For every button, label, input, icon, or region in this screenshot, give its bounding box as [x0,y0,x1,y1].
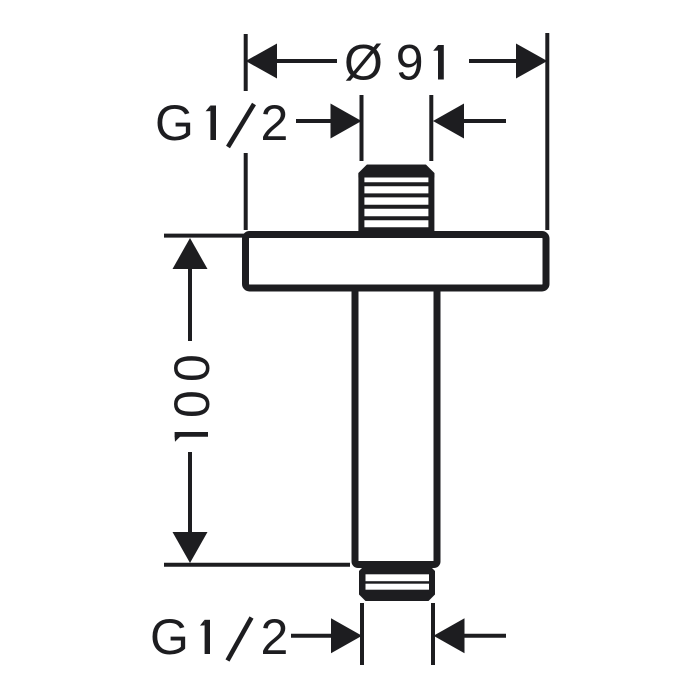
dia91 right arrowhead [516,44,547,79]
svg-text:9: 9 [396,35,424,91]
dia91 right extension line [545,33,549,230]
bottom G1/2 right-pointing arrowhead [331,618,362,653]
top thread line 1 [364,182,429,186]
top thread solid crest band [358,165,434,178]
top G1/2 dimension tail right [463,119,506,123]
dim100 dimension line lower segment [188,452,192,534]
bottom G1/2 dimension tail left [291,634,332,638]
dia91 left arrowhead [246,44,277,79]
dim100 top extension line [164,234,247,238]
top thread line 3 [364,205,429,209]
bottom G1/2 left-pointing arrowhead [434,618,465,653]
bottom G1/2 dimension tail right [464,634,506,638]
dim100 bottom extension line [164,563,350,567]
bottom thread white stripe 1 [366,574,430,581]
top G1/2 left-pointing arrowhead [433,104,464,139]
svg-text:2: 2 [261,609,289,665]
bottom G1/2 right extension line [431,603,435,665]
top G1/2 right extension line [429,95,433,161]
pipe body [355,270,437,565]
dia91 left extension line upper [244,34,248,91]
svg-text:G: G [155,95,194,151]
top thread line 4 [364,216,429,220]
dia91 left extension line lower [244,153,248,230]
top G1/2 right-pointing arrowhead [331,104,362,139]
dim100 down arrowhead [173,532,208,563]
dia91 dimension line left segment [275,59,337,63]
top thread line 5 [364,227,429,231]
top thread line 2 [364,193,429,197]
svg-text:Ø: Ø [344,35,383,91]
ceiling flange [246,235,547,289]
dia91 dimension line right segment [469,59,518,63]
dim100 dimension line upper segment [188,268,192,341]
bottom thread white stripe 2 [366,584,430,590]
top G1/2 dimension tail left [296,119,332,123]
bottom G1/2 left extension line [360,603,364,665]
top G1/2 left extension line [360,95,364,161]
svg-text:00: 00 [164,346,220,418]
top thread G1/2 outline [361,168,431,240]
svg-text:2: 2 [261,95,289,151]
bottom thread G1/2 body [359,567,435,601]
svg-text:G: G [150,609,189,665]
dim100 up arrowhead [173,238,208,269]
